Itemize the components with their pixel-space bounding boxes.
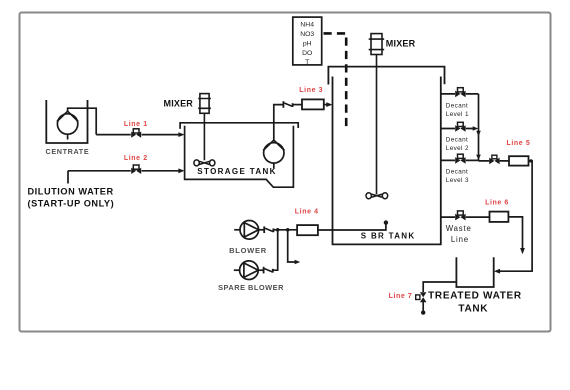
svg-text:TREATED WATER: TREATED WATER — [428, 290, 522, 301]
valve V5 — [489, 155, 499, 164]
valve V1 — [131, 129, 141, 138]
rect component Line 6 — [490, 212, 509, 222]
svg-text:Line 2: Line 2 — [124, 155, 148, 162]
svg-text:MIXER: MIXER — [164, 99, 194, 109]
svg-text:Line 3: Line 3 — [299, 87, 323, 94]
wire drain stub — [288, 230, 296, 262]
svg-text:DILUTION WATER: DILUTION WATER — [28, 187, 114, 197]
blower B2 (spare) — [234, 261, 258, 280]
impeller M1 — [194, 160, 215, 166]
svg-text:Decant: Decant — [446, 103, 468, 110]
frame border — [20, 13, 551, 332]
wire blower B2 outlet — [258, 269, 263, 271]
wire check valve to rect Line 3 — [293, 104, 302, 106]
wire waste line — [441, 216, 490, 218]
wire pump P1 discharge — [68, 108, 97, 134]
svg-text:Line 1: Line 1 — [124, 121, 148, 128]
junction dot air header — [276, 228, 280, 232]
arrow header downward — [476, 131, 481, 136]
arrow into treated water tank — [494, 269, 500, 274]
rect component Line 3 — [302, 99, 324, 109]
svg-text:SPARE BLOWER: SPARE BLOWER — [218, 283, 284, 292]
drain dot Line 7 — [421, 310, 425, 314]
pump P1 (centrate pump) — [57, 111, 78, 139]
wire pump P2 to Line 3 — [274, 105, 284, 141]
dashed instrument signal line — [324, 33, 347, 128]
mixer M1 motor — [198, 94, 211, 114]
svg-text:Line 7: Line 7 — [389, 293, 413, 300]
valve VD1 — [455, 88, 465, 98]
arrow into storage tank (Line 2) — [178, 168, 184, 173]
wire Line 2 (dilution water) — [68, 171, 179, 184]
air sparger dot — [384, 220, 388, 224]
svg-text:BLOWER: BLOWER — [229, 246, 267, 255]
wire blower B1 outlet — [259, 229, 265, 231]
wire decant level 2 — [441, 128, 474, 130]
arrow drain stub — [295, 260, 301, 264]
svg-text:Waste: Waste — [446, 224, 472, 233]
wire Line 7 — [423, 282, 456, 311]
svg-text:Level 2: Level 2 — [446, 145, 469, 152]
valve VD2 — [455, 122, 465, 132]
svg-text:MIXER: MIXER — [386, 38, 416, 48]
wire air header — [273, 229, 297, 231]
tank CENTRATE — [46, 100, 87, 143]
wire spare blower riser — [273, 230, 278, 270]
wire decant level 3 — [441, 159, 479, 161]
wire decant level 1 — [441, 93, 479, 95]
svg-text:(START-UP ONLY): (START-UP ONLY) — [28, 198, 115, 208]
svg-text:STORAGE TANK: STORAGE TANK — [197, 167, 276, 176]
svg-text:pH: pH — [303, 40, 312, 47]
svg-text:Decant: Decant — [446, 137, 468, 144]
wire Line 6 to drain — [508, 217, 522, 249]
svg-text:Level 3: Level 3 — [446, 177, 469, 184]
svg-text:TANK: TANK — [458, 303, 488, 314]
instrument box NH4 NO3 pH DO T — [293, 17, 322, 65]
pump P2 (storage tank pump) — [263, 140, 284, 168]
svg-text:Level 1: Level 1 — [446, 111, 469, 118]
wire header to valve V5 — [479, 160, 510, 162]
svg-text:S BR TANK: S BR TANK — [361, 232, 416, 241]
svg-text:Decant: Decant — [446, 168, 468, 175]
arrow into storage tank (Line 1) — [178, 132, 184, 137]
tank STORAGE TANK — [180, 123, 298, 129]
rect component Line 5 — [509, 156, 529, 165]
check valve CV3 — [283, 101, 292, 108]
arrow header into line5 — [476, 155, 481, 160]
arrow Line 6 drain — [520, 248, 525, 254]
svg-text:Line 4: Line 4 — [295, 209, 319, 216]
svg-text:T: T — [305, 59, 309, 66]
wire mixer M1 shaft — [203, 113, 205, 160]
svg-text:CENTRATE: CENTRATE — [46, 147, 90, 156]
arrow into SBR tank (Line 3) — [326, 102, 332, 107]
junction dot line5 corner — [529, 159, 532, 162]
rect component Line 4 — [297, 225, 318, 235]
svg-text:NH4: NH4 — [300, 21, 314, 28]
svg-text:DO: DO — [302, 50, 312, 57]
wire Line 5 to treated water tank — [499, 161, 532, 271]
arrow decant2 into header — [473, 126, 479, 130]
tank SBR lip — [328, 67, 444, 85]
wire Line 4 into SBR tank — [318, 224, 386, 230]
wire rect Line3 to SBR tank — [324, 104, 328, 106]
wire mixer M2 shaft — [376, 55, 378, 195]
svg-text:Line: Line — [451, 235, 469, 244]
valve VW — [455, 211, 465, 221]
valve V2 — [131, 165, 141, 174]
tank SBR walls — [333, 77, 441, 245]
tank TREATED WATER TANK — [456, 257, 493, 287]
wire Line 1 — [96, 134, 179, 136]
check valve CV2 — [264, 267, 273, 274]
mixer M2 motor — [369, 34, 385, 55]
impeller M2 — [366, 193, 388, 199]
junction dot drain stub — [286, 228, 290, 232]
check valve CV1 — [264, 226, 273, 233]
svg-text:NO3: NO3 — [300, 31, 314, 38]
wire decant header — [478, 94, 480, 160]
svg-text:Line 5: Line 5 — [506, 140, 530, 147]
svg-text:Line 6: Line 6 — [485, 199, 509, 206]
valve VD3 — [455, 154, 465, 164]
blower B1 — [234, 221, 258, 240]
valve V7 — [416, 292, 427, 302]
